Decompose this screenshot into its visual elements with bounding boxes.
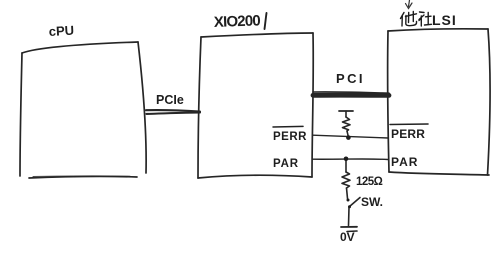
svg-text:PCIe: PCIe <box>156 93 184 107</box>
svg-text:cPU: cPU <box>48 23 74 39</box>
svg-text:PERR: PERR <box>273 131 307 143</box>
svg-text:LSI: LSI <box>432 12 457 28</box>
svg-text:PAR: PAR <box>391 155 418 169</box>
svg-text:PCI: PCI <box>336 71 365 86</box>
svg-text:PERR: PERR <box>391 127 425 141</box>
svg-text:PAR: PAR <box>273 158 299 170</box>
svg-text:XIO200: XIO200 <box>214 12 261 31</box>
svg-text:SW.: SW. <box>361 195 383 209</box>
svg-text:125Ω: 125Ω <box>356 176 383 188</box>
